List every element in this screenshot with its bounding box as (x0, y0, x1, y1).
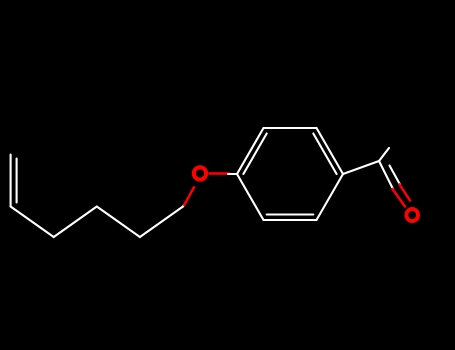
wire ring V4 - C7 (343, 161, 379, 174)
ring edge V6-V1 (237, 174, 264, 220)
aldehyde C7=O second line white half (390, 166, 401, 185)
ring inner double bond line V1-V2 (243, 134, 266, 175)
ring edge V4-V5 (317, 174, 344, 220)
wire C1-O red bond (184, 187, 194, 205)
wire C5-C4 (11, 207, 54, 238)
aldehyde C7=O main line red half (393, 189, 406, 207)
ring edge V5-V6 (264, 219, 317, 221)
wire O1-ring white half (228, 173, 237, 175)
aldehyde C7=O main line white half (379, 161, 393, 189)
aldehyde C7=O second line red half (400, 185, 411, 201)
wire C2-C1 (140, 207, 183, 238)
ring edge V3-V4 (317, 128, 344, 174)
ring edge V2-V3 (264, 127, 317, 129)
wire C1-O white tail (183, 202, 186, 207)
wire C4-C3 (54, 207, 97, 238)
ring inner double bond line V3-V4 (313, 134, 336, 175)
aldehyde H stub at C7 (379, 148, 389, 161)
terminal vinyl double bond C6=C5 second line (16, 159, 18, 203)
ether oxygen O1 glyph (194, 167, 206, 179)
ring inner double bond line V5-V6 (267, 213, 314, 215)
wire O1-ring red half (210, 172, 230, 175)
ring edge V1-V2 (237, 128, 264, 174)
terminal vinyl double bond C6=C5 main line (10, 155, 12, 207)
wire C3-C2 (97, 207, 140, 238)
benzene ring (237, 128, 343, 220)
aldehyde oxygen O2 glyph (406, 209, 418, 221)
